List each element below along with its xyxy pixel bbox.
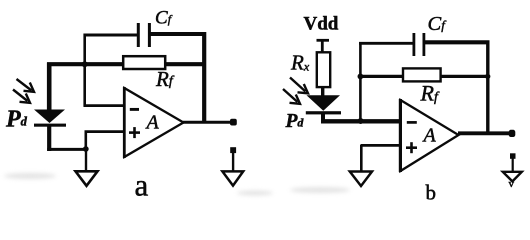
wire R_f row (b) bbox=[360, 75, 489, 78]
svg-text:Vdd: Vdd bbox=[304, 14, 339, 35]
wire feedback-resistor row thick (a) bbox=[47, 62, 206, 66]
op-amp U2 (b) minus sign bbox=[407, 121, 417, 124]
wire cap-right horizontal thick (a) bbox=[149, 32, 206, 36]
wire photodiode to node (b) bbox=[321, 113, 325, 122]
capacitor C_f plates (a) bbox=[138, 23, 149, 47]
op-amp U2 (b) plus sign bbox=[406, 142, 417, 153]
wire inverting-input horizontal (a) bbox=[84, 104, 126, 107]
ground stem right (b) bbox=[512, 158, 514, 172]
photodiode D (b) cathode bar bbox=[306, 111, 341, 114]
light arrow 2 (b) bbox=[283, 89, 300, 104]
resistor R_f (a) bbox=[123, 56, 165, 69]
wire photodiode anode vertical thick (a) bbox=[47, 63, 52, 111]
op-amp U1 (a) plus sign bbox=[129, 127, 140, 138]
resistor R_x bbox=[317, 52, 330, 87]
junction dot (a) ground node bbox=[83, 146, 89, 152]
svg-text:a: a bbox=[135, 168, 149, 201]
junction dot R_f node (b) bbox=[358, 74, 364, 80]
op-amp U2 (b) left edge bbox=[399, 99, 402, 172]
op-amp U1 (a) left edge bbox=[123, 87, 126, 158]
ground symbol right (b) bbox=[503, 172, 522, 182]
resistor R_f (b) bbox=[403, 68, 441, 81]
ground symbol left (b) bbox=[350, 172, 372, 187]
light arrow 1 (a) bbox=[17, 79, 35, 92]
op-amp U1 (a) body bbox=[124, 88, 183, 157]
ground symbol left (a) bbox=[76, 171, 98, 186]
op-amp U2 (b) body bbox=[400, 100, 458, 171]
photodiode D (a) cathode bar bbox=[34, 124, 66, 127]
junction dot node (b) bbox=[358, 118, 364, 124]
Vdd rail tick bbox=[317, 39, 330, 42]
wire noninverting vertical to ground (b) bbox=[360, 145, 363, 172]
wire noninverting vertical (a) bbox=[85, 132, 88, 150]
wire Vdd to R_x bbox=[321, 39, 324, 53]
wire noninverting-input horizontal (a) bbox=[85, 130, 126, 133]
wire R_x to photodiode bbox=[321, 87, 324, 97]
ground terminal square right (b) bbox=[510, 153, 516, 159]
svg-text:b: b bbox=[426, 181, 437, 201]
wire main node horizontal thick (b) bbox=[321, 119, 401, 123]
wire output horizontal (b) bbox=[458, 131, 510, 135]
photodiode D (a) triangle bbox=[34, 110, 65, 124]
op-amp U1 (a) minus sign bbox=[130, 108, 139, 111]
junction dot right (b) bbox=[485, 74, 490, 79]
wire left vertical (a) bbox=[83, 34, 86, 107]
svg-text:A: A bbox=[145, 112, 160, 134]
wire photodiode cathode vertical (a) bbox=[47, 124, 51, 151]
photodiode D (b) triangle bbox=[307, 95, 341, 111]
output terminal (a) bbox=[230, 119, 237, 126]
scan smudge marks (decorative) bbox=[4, 173, 350, 196]
ground stem right (a) bbox=[232, 152, 234, 171]
ground symbol right (a) bbox=[222, 171, 243, 185]
wire cap-left horizontal (b) bbox=[359, 42, 413, 45]
wire ground stem (a) bbox=[85, 149, 87, 171]
wire output horizontal (a) bbox=[183, 121, 231, 124]
wire bottom horizontal (a) bbox=[47, 148, 86, 151]
light arrow 2 (a) bbox=[13, 90, 30, 103]
svg-text:A: A bbox=[422, 125, 437, 147]
svg-text:v: v bbox=[509, 178, 515, 190]
ground terminal square right (a) bbox=[230, 147, 236, 153]
wire cap-right horizontal thick (b) bbox=[424, 40, 490, 44]
wire feedback right vertical thick (a) bbox=[202, 32, 206, 123]
output terminal (b) bbox=[509, 130, 516, 137]
light arrow 1 (b) bbox=[290, 78, 308, 94]
capacitor C_f plates (b) bbox=[414, 33, 424, 56]
wire feedback right vertical (b) bbox=[486, 41, 489, 134]
wire noninverting-input horizontal (b) bbox=[361, 144, 401, 147]
wire feedback left vertical (b) bbox=[359, 43, 362, 121]
junction dot (a) R_f/C_f node bbox=[82, 61, 88, 67]
wire cap-left horizontal (a) bbox=[84, 34, 138, 37]
